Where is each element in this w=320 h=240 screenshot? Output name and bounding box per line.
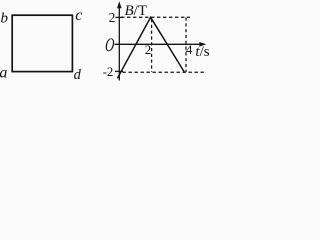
tick at B=2 — [116, 16, 124, 18]
svg-text:4: 4 — [186, 42, 193, 57]
dashed vertical at t=4 — [185, 18, 187, 73]
svg-text:2: 2 — [145, 42, 152, 57]
tick at B=-2 — [115, 70, 123, 72]
x-axis arrowhead — [199, 42, 206, 47]
svg-text:a: a — [0, 64, 7, 81]
svg-text:2: 2 — [109, 10, 116, 25]
svg-text:b: b — [1, 11, 9, 27]
dashed level line B=2 — [121, 16, 190, 18]
svg-text:t/s: t/s — [195, 44, 209, 60]
triangular waveform B(t) — [117, 17, 184, 78]
square coil abcd — [12, 15, 72, 71]
x-axis (t axis) — [115, 43, 202, 45]
svg-text:c: c — [75, 7, 82, 24]
svg-text:-2: -2 — [103, 65, 113, 79]
svg-text:O: O — [104, 36, 115, 56]
dashed vertical at t=2 — [151, 19, 153, 72]
svg-text:d: d — [74, 67, 82, 83]
y-axis (B axis) — [118, 5, 120, 81]
dashed level line B=-2 — [123, 71, 205, 73]
y-axis arrowhead — [117, 1, 122, 8]
